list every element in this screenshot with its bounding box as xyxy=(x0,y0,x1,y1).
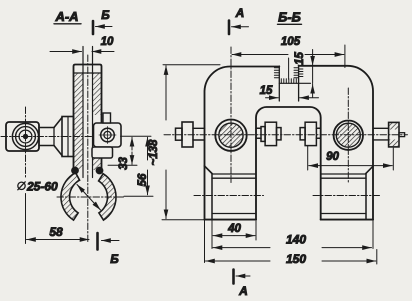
right leg inner line xyxy=(365,173,367,219)
dim 10 xyxy=(50,36,114,52)
body right edge extension xyxy=(372,220,374,249)
middle right nut xyxy=(300,122,321,145)
right boss circle xyxy=(334,121,363,150)
section mark A bottom xyxy=(234,270,251,299)
right screw nut xyxy=(389,122,399,146)
dim 15 vertical xyxy=(294,50,313,98)
svg-text:40: 40 xyxy=(227,223,241,235)
knob xyxy=(6,122,39,151)
dim 105 xyxy=(232,36,345,68)
rod slot lines xyxy=(83,47,93,178)
dim 56 xyxy=(137,137,149,195)
dim 90 xyxy=(308,146,394,170)
svg-text:150: 150 xyxy=(286,252,306,266)
right chamfer xyxy=(366,166,373,173)
knob centerline xyxy=(25,107,27,177)
column body xyxy=(74,65,102,171)
left circle centerline xyxy=(230,47,232,183)
left screw shaft xyxy=(193,128,205,140)
svg-text:105: 105 xyxy=(281,36,301,48)
clamp radius leaders xyxy=(77,185,101,211)
body left edge extension xyxy=(204,166,206,220)
label A-A xyxy=(54,9,81,24)
svg-text:Б: Б xyxy=(110,252,119,266)
section mark B bottom xyxy=(98,233,120,266)
left boss circle xyxy=(215,120,246,151)
window arch xyxy=(256,107,321,220)
pivot dot right xyxy=(96,167,104,175)
left leg pipe axis xyxy=(194,195,264,197)
svg-text:15: 15 xyxy=(260,85,273,97)
dim 58 xyxy=(26,194,90,244)
clamp ring right half xyxy=(99,174,116,220)
bolt axis centerline xyxy=(1,136,120,138)
dim 40 xyxy=(213,221,256,240)
svg-text:Б: Б xyxy=(101,8,110,22)
left screw nut xyxy=(182,122,193,147)
svg-text:25-60: 25-60 xyxy=(26,180,58,194)
left leg face lines xyxy=(212,174,256,214)
dim 15 horizontal xyxy=(260,85,319,98)
svg-text:15: 15 xyxy=(294,52,306,65)
svg-text:А: А xyxy=(238,284,248,298)
side screw boss xyxy=(94,123,122,147)
body outline right xyxy=(299,66,373,220)
column centerline xyxy=(87,55,89,242)
right leg bottom xyxy=(321,219,373,221)
svg-text:А-А: А-А xyxy=(54,9,78,24)
right screw shaft xyxy=(373,128,389,140)
svg-text:90: 90 xyxy=(326,151,339,163)
serrated adjuster xyxy=(274,58,310,101)
right screw tip xyxy=(399,133,405,137)
dim ~138 xyxy=(148,65,220,220)
left chamfer xyxy=(205,166,213,174)
extension to 56 dim xyxy=(124,195,153,197)
left screw end cap xyxy=(176,128,183,140)
label B-B xyxy=(278,10,302,25)
left leg bottom xyxy=(205,219,257,221)
ext line bolt axis right xyxy=(121,135,152,137)
right leg pipe axis xyxy=(313,195,381,197)
screw axis centerline xyxy=(164,134,408,136)
svg-text:10: 10 xyxy=(101,36,114,48)
svg-text:58: 58 xyxy=(49,225,63,239)
dim 33 xyxy=(118,137,132,170)
clamp horizontal centerline xyxy=(57,196,124,198)
bolt neck xyxy=(39,128,54,146)
svg-text:140: 140 xyxy=(286,233,306,247)
ext line clamp top xyxy=(108,164,137,166)
svg-text:56: 56 xyxy=(137,173,149,186)
svg-text:А: А xyxy=(235,6,245,20)
svg-text:33: 33 xyxy=(118,157,130,170)
right circle centerline xyxy=(347,88,349,183)
boss lower step xyxy=(92,147,113,158)
right leg face lines xyxy=(321,174,366,214)
left leg inner line xyxy=(211,174,213,220)
section mark A top xyxy=(229,6,249,34)
svg-text:Б-Б: Б-Б xyxy=(278,10,301,25)
dim 150 xyxy=(206,250,377,267)
pivot dot left xyxy=(71,167,79,175)
section mark B top xyxy=(93,8,112,34)
dim 140 xyxy=(213,233,372,248)
clamp ring left half xyxy=(61,173,80,220)
svg-text:~138: ~138 xyxy=(148,139,160,166)
body outline left xyxy=(205,66,280,166)
boss tab xyxy=(103,113,111,123)
bolt flange xyxy=(54,117,74,157)
middle left nut xyxy=(256,122,281,145)
label dia 25-60 xyxy=(18,180,58,194)
